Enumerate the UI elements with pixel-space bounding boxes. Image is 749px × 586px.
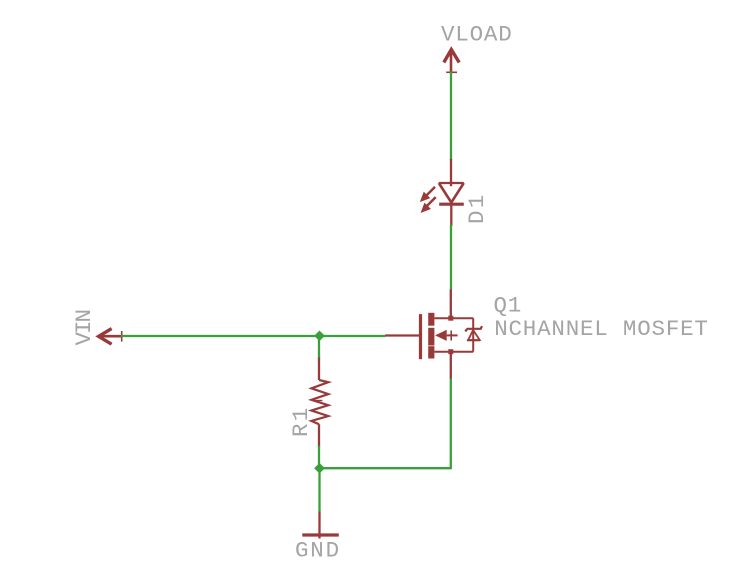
body diode triangle — [468, 330, 480, 340]
svg-text:D1: D1 — [464, 193, 490, 224]
source rail — [434, 351, 473, 353]
substrate arrow — [435, 330, 447, 341]
svg-text:R1: R1 — [288, 406, 314, 437]
junction node R1/GND — [315, 464, 324, 473]
body diode cathode bar (bent) — [465, 326, 482, 331]
junction node gate/R1 — [315, 331, 324, 340]
emission arrows — [426, 187, 435, 196]
gate lead — [385, 334, 419, 336]
supply arrow VIN — [99, 329, 122, 345]
svg-text:NCHANNEL MOSFET: NCHANNEL MOSFET — [494, 316, 709, 342]
LED D1 — [421, 159, 463, 226]
channel bars — [428, 313, 434, 326]
wire R1 to GND junction — [318, 446, 320, 468]
wire junction to GND — [318, 468, 320, 512]
resistor R1 — [311, 358, 328, 447]
wire D1 to Q1 drain — [450, 225, 452, 291]
gate bar — [419, 314, 422, 359]
wire VLOAD to D1 — [450, 71, 452, 160]
ground GND — [302, 512, 339, 539]
drain stub — [450, 290, 452, 319]
transistor Q1 (n-channel MOSFET with body diode) — [385, 290, 482, 380]
supply arrow VLOAD — [444, 50, 459, 73]
wire VIN to Q1 gate — [121, 335, 386, 337]
wire junction to Q1 source — [320, 379, 451, 469]
svg-text:Q1: Q1 — [494, 292, 523, 318]
svg-text:VIN: VIN — [71, 310, 97, 345]
source stub — [450, 352, 452, 379]
wire junction to R1 — [318, 336, 320, 359]
body-diode branch vertical — [472, 318, 474, 352]
pin junction squares — [448, 316, 453, 321]
drain rail — [434, 317, 473, 319]
svg-text:VLOAD: VLOAD — [441, 21, 513, 47]
svg-text:GND: GND — [295, 538, 341, 564]
